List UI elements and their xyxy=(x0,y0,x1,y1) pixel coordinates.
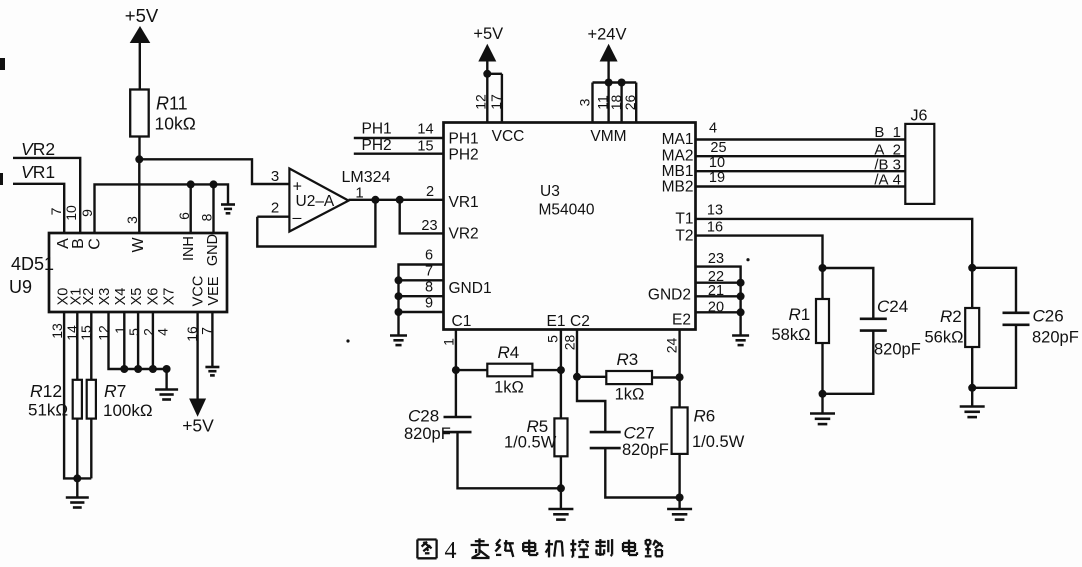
svg-text:13: 13 xyxy=(49,323,65,339)
wire -input xyxy=(257,215,289,217)
node R4/E1 xyxy=(557,366,565,374)
svg-text:B 1: B 1 xyxy=(874,124,901,141)
svg-text:4: 4 xyxy=(155,328,171,336)
U9 pin name X5 xyxy=(129,288,145,306)
U3 pin name PH2 xyxy=(449,147,479,164)
U3 pin name T2 xyxy=(675,228,693,245)
pin 12 label xyxy=(473,94,489,110)
wire VCC pin16 to +5V xyxy=(196,312,198,400)
wire E1 down through R5 xyxy=(560,330,562,419)
svg-text:6: 6 xyxy=(176,212,192,220)
scan speck 2 xyxy=(746,258,749,261)
svg-text:X6: X6 xyxy=(145,288,161,306)
svg-text:4D51: 4D51 xyxy=(11,254,54,274)
svg-text:U2–A: U2–A xyxy=(296,193,335,210)
svg-text:26: 26 xyxy=(622,95,638,111)
svg-text:X5: X5 xyxy=(129,288,145,306)
svg-text:VCC: VCC xyxy=(190,276,206,307)
wire X3-X7 bus xyxy=(109,312,167,369)
wire VMM bracket xyxy=(593,81,637,83)
pin 3 label xyxy=(577,98,593,106)
wire to ground (R1) xyxy=(821,394,823,413)
U9 pin name X7 xyxy=(162,288,178,306)
svg-text:10kΩ: 10kΩ xyxy=(155,114,196,134)
label J6 xyxy=(911,108,928,125)
wire X5 stub xyxy=(137,312,139,369)
U3 pin name VCC xyxy=(492,128,525,145)
label U9 xyxy=(9,277,32,297)
node VMM pin18 xyxy=(618,79,626,87)
node R6/C27 xyxy=(676,494,684,502)
U3 pin name MB1 xyxy=(662,163,694,180)
svg-text:C28: C28 xyxy=(408,407,439,426)
wire VMM pin3 xyxy=(591,83,593,123)
wire VCC pin17 xyxy=(501,74,503,123)
pin 2 label (op-amp) xyxy=(271,200,279,217)
wire C26 branch top xyxy=(972,268,1016,313)
wire PH2 xyxy=(354,152,444,154)
wire INH stub xyxy=(189,184,191,233)
svg-text:GND: GND xyxy=(205,234,221,266)
node C1/R4 xyxy=(452,366,460,374)
node X5 xyxy=(134,365,142,373)
label R4 xyxy=(494,343,524,397)
pin 3 label xyxy=(124,216,140,224)
svg-text:20: 20 xyxy=(708,300,724,316)
wire to ground (R2) xyxy=(971,388,973,406)
svg-text:MA1: MA1 xyxy=(662,131,694,148)
pin 6 label xyxy=(176,212,192,220)
node INH junction xyxy=(187,180,195,188)
U3 pin name C2 xyxy=(570,313,590,330)
node R1/C24 bottom xyxy=(819,390,827,398)
svg-text:58kΩ: 58kΩ xyxy=(772,326,811,344)
svg-text:VR1: VR1 xyxy=(21,162,55,182)
wire GND1 bus xyxy=(399,265,444,335)
node GND1 pin7 xyxy=(395,276,403,284)
wire R1 top xyxy=(821,268,823,299)
op-amp + symbol xyxy=(293,179,302,196)
U3 pin name MA1 xyxy=(662,131,694,148)
wire to ground (R6) xyxy=(678,498,680,509)
net VR2 label xyxy=(21,139,55,159)
node R3/E2 xyxy=(676,373,684,381)
wire GND2 pin21 xyxy=(696,295,741,297)
wire C24 branch top xyxy=(823,268,874,319)
scan mark left edge 2 xyxy=(0,173,3,185)
resistor R12 xyxy=(73,380,82,419)
wire GND2 bus xyxy=(696,267,741,335)
pin 28 label xyxy=(562,335,578,351)
svg-text:10: 10 xyxy=(63,205,79,221)
svg-text:VR2: VR2 xyxy=(449,226,479,243)
U9 pin name C xyxy=(87,238,104,250)
node X0/R12/R7 junction xyxy=(73,474,81,482)
ground (X3-X7) xyxy=(155,390,178,400)
pin 14 label xyxy=(417,122,433,138)
pin 23 label (U3 VR2) xyxy=(421,218,437,234)
IC U9 4D51 body xyxy=(49,233,227,312)
svg-text:MB2: MB2 xyxy=(662,179,694,196)
svg-text:X4: X4 xyxy=(113,288,129,306)
svg-text:2: 2 xyxy=(426,184,434,200)
pin 25 label xyxy=(710,140,726,156)
wire C26 branch bottom xyxy=(972,325,1016,388)
pin 13 label xyxy=(49,323,65,339)
wire op-amp output to VR1 xyxy=(349,199,444,201)
svg-text:GND2: GND2 xyxy=(648,287,691,304)
resistor R7 xyxy=(87,380,96,419)
label R6 xyxy=(692,407,745,452)
label U2-A xyxy=(296,193,335,210)
svg-text:1kΩ: 1kΩ xyxy=(615,386,645,404)
label C26 xyxy=(1032,307,1079,347)
U3 pin name T1 xyxy=(675,211,693,228)
pin 7 label (VEE) xyxy=(199,327,215,335)
U3 pin name VMM xyxy=(590,128,626,145)
capacitor C28 xyxy=(444,417,472,432)
svg-text:3: 3 xyxy=(271,168,279,185)
pin 2 label (U3 VR1) xyxy=(426,184,434,200)
wire E2 down through R6 xyxy=(678,330,680,408)
svg-text:R12: R12 xyxy=(30,381,62,401)
label LM324 xyxy=(342,169,391,186)
wire VMM pin18 xyxy=(620,83,622,123)
svg-text:B: B xyxy=(70,238,87,249)
wire X0 down and across xyxy=(64,312,91,478)
label 4D51 xyxy=(11,254,54,274)
node T1/R2/C26 xyxy=(968,264,976,272)
svg-text:7: 7 xyxy=(425,264,433,280)
pin 26 label xyxy=(622,95,638,111)
U9 pin name X2 xyxy=(81,288,97,306)
wire R6 bottom xyxy=(678,454,680,498)
svg-text:R6: R6 xyxy=(694,407,716,426)
svg-text:C1: C1 xyxy=(452,313,472,330)
svg-text:820pF: 820pF xyxy=(874,341,921,359)
wire GND2 pin20 xyxy=(696,311,741,313)
node GND2 pin20 xyxy=(737,308,745,316)
pin 10 label xyxy=(63,205,79,221)
U9 pin name A xyxy=(55,238,72,249)
svg-text:VCC: VCC xyxy=(492,128,525,145)
node feedback/output xyxy=(371,196,379,204)
ground (U9 top bus) xyxy=(221,205,235,214)
svg-text:23: 23 xyxy=(421,218,437,234)
wire C1 down xyxy=(455,330,457,418)
wire C/INH/GND ground bus xyxy=(95,184,229,233)
label R2 xyxy=(925,307,964,347)
wire VR2 branch xyxy=(400,200,444,234)
svg-text:23: 23 xyxy=(708,251,724,267)
ground (U9 VEE) xyxy=(205,367,219,375)
wire PH1 xyxy=(354,137,444,139)
wire C24 branch bottom xyxy=(823,331,874,394)
label R7 xyxy=(103,381,153,420)
pin 23 label xyxy=(708,251,724,267)
pin 4 label xyxy=(155,328,171,336)
svg-text:1/0.5W: 1/0.5W xyxy=(692,433,745,451)
capacitor C24 xyxy=(860,319,887,331)
ground (R1/C24) xyxy=(810,414,835,425)
svg-text:MA2: MA2 xyxy=(662,148,694,165)
wire R7 bottom xyxy=(90,419,92,479)
ground (R5/C28) xyxy=(548,509,573,520)
svg-text:C24: C24 xyxy=(877,297,908,316)
node R2/C26 bottom xyxy=(968,384,976,392)
wire GND1 pin7 xyxy=(399,279,444,281)
wire R2 bottom xyxy=(971,347,973,388)
svg-text:10: 10 xyxy=(709,155,725,171)
wire T1 to R2 network xyxy=(696,219,973,269)
pin 24 label xyxy=(664,338,680,354)
svg-text:820pF: 820pF xyxy=(1032,329,1079,347)
wire MA1 to J6 xyxy=(696,138,906,140)
wire C1 node to R4 xyxy=(456,369,487,371)
svg-text:U3: U3 xyxy=(540,183,560,200)
wire junction to ground xyxy=(76,478,78,497)
svg-text:24: 24 xyxy=(664,338,680,354)
pin 16 label xyxy=(707,220,723,236)
resistor R1 xyxy=(816,299,829,343)
wire R1 bottom xyxy=(821,343,823,394)
svg-text:R11: R11 xyxy=(156,94,188,114)
node X7 xyxy=(163,365,171,373)
wire X2 to R7 xyxy=(90,312,92,380)
node X4 xyxy=(120,365,128,373)
pin 21 label xyxy=(708,283,724,299)
U3 pin name MB2 xyxy=(662,179,694,196)
svg-text:GND1: GND1 xyxy=(449,280,492,297)
wire X1 to R12 xyxy=(76,312,78,380)
U9 pin name X4 xyxy=(113,288,129,306)
U9 pin name W xyxy=(130,237,147,253)
power +24V xyxy=(588,26,627,62)
svg-text:VR1: VR1 xyxy=(449,194,479,211)
label R12 xyxy=(28,381,68,420)
svg-text:16: 16 xyxy=(707,220,723,236)
wire C27 bottom xyxy=(605,448,679,497)
svg-text:+24V: +24V xyxy=(588,26,627,44)
wire W to node xyxy=(138,159,140,233)
wire C2 node to R3 xyxy=(577,376,606,378)
svg-text:1kΩ: 1kΩ xyxy=(494,379,524,397)
svg-text:R3: R3 xyxy=(617,350,639,369)
resistor R3 xyxy=(606,371,652,384)
wire X6 stub xyxy=(152,312,154,369)
wire GND2 pin22 xyxy=(696,282,741,284)
node GND2 pin22 xyxy=(737,279,745,287)
U3 pin name VR1 xyxy=(449,194,479,211)
U9 pin name GND xyxy=(205,234,221,266)
svg-text:R1: R1 xyxy=(789,305,811,324)
svg-text:7: 7 xyxy=(48,207,64,215)
power +5V (U3 VCC) xyxy=(473,25,503,62)
svg-text:PH2: PH2 xyxy=(449,147,479,164)
pin 8 label xyxy=(199,213,215,221)
pin 2 label xyxy=(141,328,157,336)
svg-text:VR2: VR2 xyxy=(21,139,55,159)
connector J6 body xyxy=(905,124,934,204)
pin 16 label xyxy=(184,326,200,342)
pin 19 label xyxy=(709,170,725,186)
pin 8 label xyxy=(425,280,433,296)
U3 pin name E2 (right) xyxy=(672,312,691,329)
node VCC xyxy=(483,70,491,78)
label C24 xyxy=(874,297,921,359)
svg-text:C27: C27 xyxy=(624,424,655,443)
label M54040 xyxy=(539,202,595,219)
pin 14 label xyxy=(64,325,80,341)
U9 pin name VEE xyxy=(206,276,222,305)
U3 pin name C1 xyxy=(452,313,472,330)
wire GND stub xyxy=(212,184,214,233)
wire VMM pin11 xyxy=(607,83,609,123)
wire to +24V arrow xyxy=(607,60,609,83)
svg-text:5: 5 xyxy=(545,335,561,343)
IC U3 M54040 body xyxy=(444,123,696,330)
node GND1 pin8 xyxy=(395,292,403,300)
node X6 xyxy=(149,365,157,373)
svg-text:R4: R4 xyxy=(498,343,520,362)
wire VCC bracket xyxy=(487,73,502,75)
wire to ground (R5) xyxy=(560,488,562,508)
svg-text:9: 9 xyxy=(425,296,433,312)
svg-text:8: 8 xyxy=(199,213,215,221)
pin 5 label xyxy=(545,335,561,343)
pin 20 label xyxy=(708,300,724,316)
label C27 xyxy=(622,424,669,460)
node GND2 pin21 xyxy=(737,292,745,300)
net VR1 label xyxy=(21,162,55,182)
svg-text:T1: T1 xyxy=(675,211,693,228)
U9 pin name X3 xyxy=(97,288,113,306)
svg-text:21: 21 xyxy=(708,283,724,299)
J6 pin B 1 xyxy=(874,124,901,141)
scan mark left edge 1 xyxy=(0,58,5,70)
svg-text:W: W xyxy=(130,237,147,253)
svg-text:PH2: PH2 xyxy=(362,137,392,154)
svg-text:X7: X7 xyxy=(162,288,178,306)
ground (GND1) xyxy=(390,336,407,346)
pin 10 label xyxy=(709,155,725,171)
label U3 xyxy=(540,183,560,200)
svg-text:4: 4 xyxy=(445,538,457,564)
svg-text:820pF: 820pF xyxy=(622,441,669,459)
pin 5 label xyxy=(126,328,142,336)
node GND1 pin9 xyxy=(395,308,403,316)
svg-text:17: 17 xyxy=(488,94,504,110)
U3 pin name GND1 xyxy=(449,280,492,297)
pin 9 label xyxy=(425,296,433,312)
resistor R5 xyxy=(554,418,567,456)
svg-text:/A 4: /A 4 xyxy=(874,172,901,189)
svg-text:X3: X3 xyxy=(97,288,113,306)
node R11/W junction xyxy=(135,155,143,163)
svg-text:1/0.5W: 1/0.5W xyxy=(504,434,557,452)
pin 9 label xyxy=(79,209,95,217)
svg-text:X2: X2 xyxy=(81,288,97,306)
wire R5 bottom xyxy=(560,456,562,488)
svg-text:C: C xyxy=(87,238,104,250)
wire VEE pin7 to ground xyxy=(211,312,213,366)
wire R11 bottom to node xyxy=(138,137,140,160)
pin 11 label xyxy=(595,95,611,110)
svg-text:9: 9 xyxy=(79,209,95,217)
wire R12 bottom xyxy=(76,419,78,479)
pin 1 label xyxy=(112,326,128,334)
node GND junction xyxy=(210,180,218,188)
svg-text:MB1: MB1 xyxy=(662,163,694,180)
pin 15 label xyxy=(417,139,433,155)
svg-text:2: 2 xyxy=(271,200,279,217)
svg-text:4: 4 xyxy=(709,121,717,137)
wire to +5V arrow xyxy=(486,60,488,74)
pin 12 label xyxy=(96,325,112,341)
capacitor C26 xyxy=(1003,313,1030,325)
resistor R11 xyxy=(130,90,149,137)
net PH1 label xyxy=(362,121,392,138)
svg-text:E2: E2 xyxy=(672,312,691,329)
wire C2 down xyxy=(576,330,578,377)
pin 4 label xyxy=(709,121,717,137)
svg-text:14: 14 xyxy=(417,122,433,138)
capacitor C27 xyxy=(590,432,621,448)
U3 pin name E1 xyxy=(547,313,566,330)
label R1 xyxy=(772,305,811,344)
wire GND1 pin8 xyxy=(399,295,444,297)
U3 pin name MA2 xyxy=(662,148,694,165)
wire GND1 pin9 xyxy=(399,311,444,313)
power +5V (U9 VCC, arrow down) xyxy=(182,399,214,436)
U3 pin name GND2 xyxy=(648,287,691,304)
net PH2 label xyxy=(362,137,392,154)
pin 1 label xyxy=(441,338,457,346)
svg-text:R2: R2 xyxy=(940,307,962,326)
scan speck 1 xyxy=(346,339,349,342)
wire +5V to R11 xyxy=(139,42,141,90)
svg-text:C26: C26 xyxy=(1033,307,1064,326)
svg-text:T2: T2 xyxy=(675,228,693,245)
svg-text:C2: C2 xyxy=(570,313,590,330)
svg-text:8: 8 xyxy=(425,280,433,296)
wire VCC pin12 xyxy=(486,74,488,123)
svg-text:51kΩ: 51kΩ xyxy=(28,401,68,420)
op-amp - symbol xyxy=(293,210,302,227)
pin 6 label xyxy=(425,248,433,264)
J6 pin /B 3 xyxy=(874,157,901,174)
wire VMM pin26 xyxy=(635,83,637,123)
svg-text:19: 19 xyxy=(709,170,725,186)
pin 15 label xyxy=(78,325,94,341)
op-amp U2-A triangle xyxy=(289,169,348,232)
pin 13 label xyxy=(707,203,723,219)
svg-text:+5V: +5V xyxy=(182,416,214,436)
svg-text:820pF: 820pF xyxy=(404,425,451,443)
pin 7 label xyxy=(425,264,433,280)
node R5/C28 xyxy=(557,484,565,492)
U9 pin name VCC xyxy=(190,276,206,307)
resistor R6 xyxy=(672,407,688,454)
wire feedback loop xyxy=(257,200,375,247)
node C2/R3 xyxy=(573,373,581,381)
svg-text:VMM: VMM xyxy=(590,128,626,145)
U9 pin name INH xyxy=(181,236,197,261)
wire R3 to E2 xyxy=(652,376,680,378)
label C28 xyxy=(404,407,451,444)
wire C28 bottom xyxy=(458,432,561,488)
svg-text:28: 28 xyxy=(562,335,578,351)
